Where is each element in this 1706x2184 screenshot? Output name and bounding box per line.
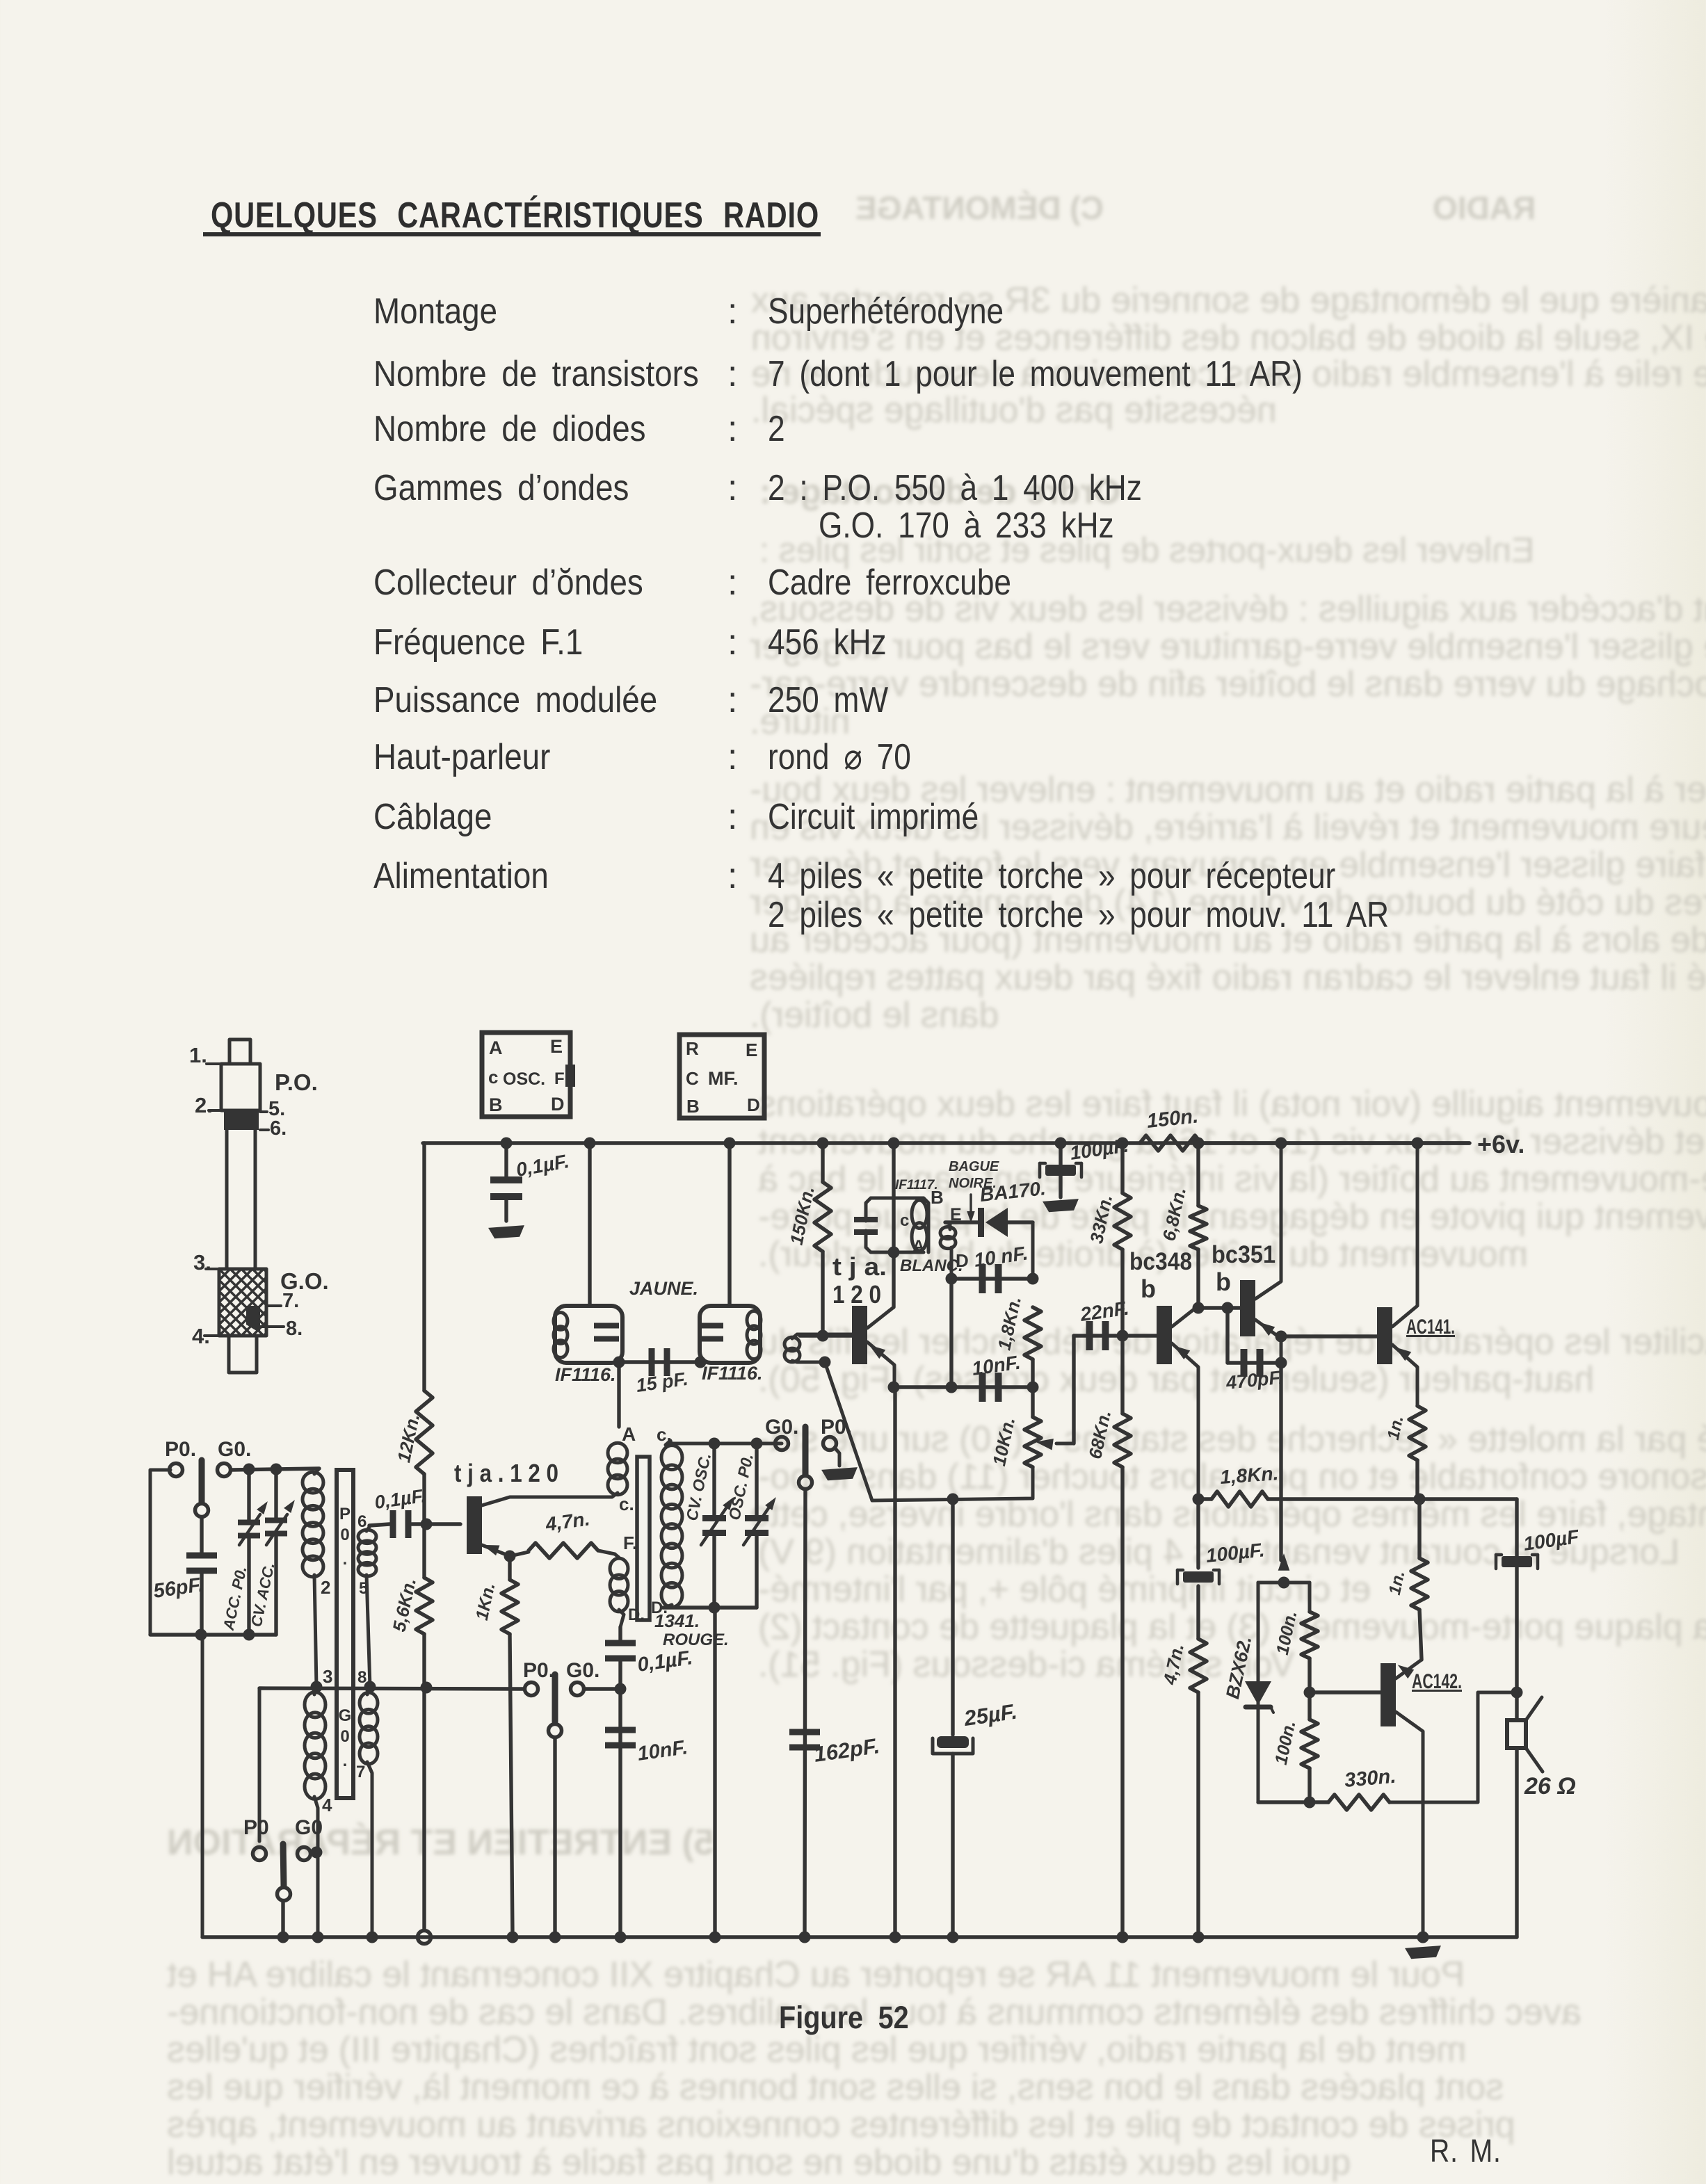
svg-text:100µF.: 100µF.: [1205, 1539, 1265, 1567]
svg-text:68Kn.: 68Kn.: [1084, 1408, 1115, 1461]
resistor 1K: [508, 1556, 511, 1580]
wire 330 ohm to speaker node: [1390, 1692, 1515, 1802]
svg-text:B: B: [931, 1187, 944, 1208]
svg-text:1,8Kn.: 1,8Kn.: [1219, 1462, 1279, 1488]
wire: [1031, 1222, 1035, 1279]
svg-text:c: c: [900, 1211, 909, 1230]
svg-text:D: D: [551, 1094, 565, 1115]
svg-text:150Kn.: 150Kn.: [786, 1184, 819, 1247]
speaker: [1515, 1499, 1518, 1692]
capacitor 10nF second: [894, 1385, 1033, 1389]
antenna coil GO primary: [305, 1692, 325, 1717]
wire: [422, 1474, 426, 1578]
svg-text:A: A: [622, 1423, 636, 1445]
svg-text:5,6Kn.: 5,6Kn.: [388, 1576, 420, 1634]
svg-text:P0.: P0.: [821, 1416, 852, 1439]
transistor AC141: [1377, 1307, 1392, 1364]
svg-text:33Kn.: 33Kn.: [1086, 1192, 1116, 1245]
svg-text:330n.: 330n.: [1344, 1765, 1397, 1792]
oscillator collector winding A-c: [617, 1362, 620, 1427]
svg-text:1n.: 1n.: [1385, 1569, 1409, 1597]
svg-text:AC142.: AC142.: [1412, 1670, 1462, 1693]
svg-text:BAGUE: BAGUE: [949, 1159, 999, 1174]
OSC module box: [482, 1033, 570, 1117]
core bar 1341: [637, 1457, 650, 1620]
svg-text:OSC. P0.: OSC. P0.: [725, 1452, 757, 1521]
svg-text:MF.: MF.: [708, 1068, 739, 1089]
collector wire: [482, 1497, 609, 1505]
svg-text:+6v.: +6v.: [1477, 1130, 1524, 1158]
svg-text:.: .: [343, 1550, 348, 1569]
wire to AC142 emitter: [1419, 1610, 1422, 1660]
svg-text:3.: 3.: [193, 1250, 211, 1275]
ferrite rod antenna detail: [230, 1040, 250, 1064]
svg-text:IF1116.: IF1116.: [555, 1364, 616, 1385]
svg-text:162pF.: 162pF.: [812, 1733, 881, 1767]
trimmer CV OSC: [712, 1443, 716, 1519]
lever: [552, 1674, 558, 1722]
resistor 100 ohm lower: [1307, 1692, 1311, 1720]
trimmer CV ACC: [274, 1469, 277, 1519]
svg-text:1.: 1.: [189, 1043, 207, 1067]
svg-text:4,7n.: 4,7n.: [1159, 1642, 1188, 1687]
capacitor 10nF AGC: [605, 1727, 636, 1733]
svg-text:P0: P0: [243, 1816, 269, 1839]
diode BA170 detector: [945, 1220, 978, 1224]
AGC diagonal wire: [825, 1362, 872, 1501]
switch PO1 contact wire: [258, 1688, 261, 1841]
svg-text:100µF: 100µF: [1522, 1526, 1581, 1555]
resistor 1 ohm driver: [1417, 1499, 1421, 1558]
ground: [1043, 1199, 1079, 1213]
resistor 33K: [1120, 1143, 1124, 1193]
svg-text:100n.: 100n.: [1273, 1609, 1301, 1656]
capacitor 10nF first: [950, 1247, 953, 1279]
IF1117 coupling coil: [866, 1198, 894, 1221]
resistor 4,7 ohm: [1190, 1639, 1207, 1692]
svg-text:t j a.: t j a.: [832, 1252, 887, 1281]
svg-text:b: b: [1141, 1275, 1156, 1303]
resistor 150 ohm supply: [1140, 1135, 1201, 1151]
svg-text:P: P: [339, 1505, 351, 1523]
svg-text:OSC.: OSC.: [503, 1069, 545, 1089]
svg-text:10nF.: 10nF.: [636, 1736, 689, 1765]
svg-text:c.: c.: [619, 1494, 634, 1514]
svg-text:B: B: [489, 1094, 503, 1115]
bias box bottom wire: [1258, 1800, 1310, 1804]
wire to IF2 can: [727, 1143, 731, 1306]
svg-text:bc348: bc348: [1129, 1248, 1192, 1275]
resistor 1,8K AGC: [1024, 1307, 1041, 1359]
svg-text:8.: 8.: [286, 1318, 303, 1340]
svg-text:0,1µF.: 0,1µF.: [636, 1647, 694, 1676]
switch lever antenna: [199, 1460, 205, 1502]
svg-text:7: 7: [356, 1763, 365, 1781]
lever: [283, 1844, 284, 1886]
electrolytic 25uF: [937, 1736, 969, 1748]
loop bottom wire: [150, 1633, 276, 1636]
resistor 1 ohm AC141 emitter: [1409, 1406, 1426, 1460]
collector wire: [867, 1307, 894, 1328]
MF module box: [679, 1035, 764, 1118]
electrolytic 100uF IF decoupling: [1059, 1143, 1062, 1165]
svg-text:10Kn.: 10Kn.: [988, 1415, 1019, 1468]
svg-text:G: G: [339, 1706, 352, 1725]
left antenna loop: [150, 1470, 201, 1635]
transistor bc351: [1240, 1280, 1255, 1336]
svg-text:CV. OSC.: CV. OSC.: [682, 1451, 714, 1522]
svg-text:b: b: [1216, 1268, 1231, 1296]
pin8 wire: [259, 1688, 523, 1689]
svg-text:4: 4: [322, 1795, 332, 1815]
svg-text:26 Ω: 26 Ω: [1524, 1773, 1576, 1799]
svg-text:1341.: 1341.: [654, 1610, 700, 1631]
svg-text:G0.: G0.: [218, 1438, 251, 1461]
svg-text:6.: 6.: [270, 1117, 287, 1140]
svg-text:JAUNE.: JAUNE.: [629, 1278, 698, 1299]
svg-text:6,8Kn.: 6,8Kn.: [1158, 1186, 1190, 1243]
trimmer ACC PO: [247, 1469, 250, 1522]
transistor bc348: [1157, 1306, 1172, 1364]
wire emitter rail down: [893, 1387, 896, 1937]
zener BZX62: [1245, 1681, 1271, 1705]
resistor 330 ohm: [1310, 1800, 1328, 1804]
resistor 12K: [416, 1391, 433, 1474]
svg-text:100n.: 100n.: [1271, 1719, 1300, 1766]
svg-text:1n.: 1n.: [1384, 1414, 1408, 1442]
trimmer OSC PO: [755, 1443, 758, 1519]
oscillator coil secondary GO: [360, 1692, 378, 1713]
base wire: [800, 1334, 852, 1337]
svg-text:470pF.: 470pF.: [1224, 1367, 1284, 1394]
emitter wire: [1396, 1660, 1422, 1679]
capacitor 470pF: [1225, 1308, 1229, 1363]
svg-text:E: E: [746, 1040, 757, 1060]
svg-text:P0.: P0.: [523, 1659, 554, 1682]
wire bus to IF1117: [892, 1143, 895, 1307]
svg-text:AC141.: AC141.: [1406, 1316, 1455, 1338]
svg-text:15 pF.: 15 pF.: [635, 1368, 689, 1396]
wire to IF1 can: [588, 1143, 591, 1306]
collector wire: [1172, 1306, 1198, 1327]
transistor tja120 converter: [467, 1496, 482, 1554]
svg-text:.: .: [343, 1752, 348, 1770]
svg-text:D: D: [956, 1250, 969, 1271]
svg-text:F.: F.: [623, 1532, 637, 1553]
bottom bus: [202, 1935, 1517, 1939]
emitter wire: [482, 1545, 510, 1556]
ground main: [1417, 1932, 1429, 1943]
capacitor 162pF padding: [789, 1729, 820, 1736]
resistor 100 ohm upper: [1301, 1612, 1318, 1658]
capacitor 56pF: [200, 1517, 203, 1555]
svg-text:10nF.: 10nF.: [971, 1351, 1022, 1379]
svg-text:1,8Kn.: 1,8Kn.: [993, 1295, 1025, 1352]
wire: [422, 1634, 426, 1930]
tuning loop left edge: [201, 1635, 204, 1937]
svg-text:1 2 0: 1 2 0: [832, 1280, 881, 1309]
svg-text:56pF.: 56pF.: [152, 1574, 205, 1603]
core bar PO GO: [337, 1470, 353, 1798]
svg-text:ACC. P0.: ACC. P0.: [220, 1564, 250, 1632]
resistor 6,8K: [1196, 1143, 1200, 1206]
resistor 1,8K feedback: [1198, 1497, 1212, 1501]
ground: [488, 1225, 525, 1239]
svg-text:7.: 7.: [282, 1290, 299, 1312]
svg-text:2.: 2.: [195, 1093, 213, 1117]
antenna coil PO primary: [314, 1469, 319, 1474]
emitter wire: [1392, 1345, 1417, 1406]
wire to volume wiper: [1072, 1336, 1075, 1443]
svg-text:0,1µF.: 0,1µF.: [373, 1485, 428, 1513]
svg-text:CV. ACC.: CV. ACC.: [248, 1561, 278, 1628]
IF transformer IF1116 second: [700, 1306, 760, 1363]
svg-text:2: 2: [321, 1577, 330, 1598]
electrolytic 100uF bc348 emitter: [1196, 1499, 1200, 1568]
wire: [1201, 1141, 1470, 1144]
svg-text:t j a . 1 2 0: t j a . 1 2 0: [454, 1459, 558, 1487]
svg-text:IF1116.: IF1116.: [702, 1363, 763, 1384]
svg-text:3: 3: [323, 1666, 332, 1687]
wire left vertical: [422, 1143, 426, 1391]
wire bc351 emitter to bias network: [1279, 1363, 1282, 1560]
detector coupling coil: [784, 1337, 800, 1351]
zener diode BZX62 bias box: [1258, 1581, 1310, 1585]
wire osc tank to bus: [713, 1608, 716, 1937]
emitter wire with arrow: [867, 1342, 894, 1387]
svg-text:ROUGE.: ROUGE.: [663, 1631, 729, 1649]
resistor 4,7 ohm emitter: [510, 1552, 529, 1556]
svg-text:A: A: [912, 1237, 924, 1256]
collector wire: [1392, 1143, 1417, 1327]
svg-text:150n.: 150n.: [1145, 1105, 1199, 1133]
detector transformer winding E-D: [945, 1222, 950, 1229]
capacitor 0,1uF decoupling: [504, 1143, 508, 1180]
collector wire: [1396, 1712, 1423, 1937]
wire 150K to base: [821, 1252, 824, 1336]
svg-text:0: 0: [340, 1526, 349, 1544]
wire 25uF branch: [951, 1499, 954, 1735]
+6v supply bus: [423, 1141, 1470, 1144]
svg-text:10 nF.: 10 nF.: [973, 1242, 1029, 1271]
capacitor 0,1uF oscillator coupling: [369, 1524, 389, 1526]
emitter wire: [1255, 1320, 1281, 1363]
capacitor 22nF coupling: [1074, 1334, 1122, 1337]
electrolytic 100uF output: [1502, 1556, 1532, 1567]
potentiometer 10K volume: [1024, 1417, 1041, 1467]
svg-text:G0.: G0.: [566, 1659, 599, 1682]
switch lever oscillator: [803, 1427, 809, 1474]
svg-text:4,7n.: 4,7n.: [544, 1507, 591, 1535]
svg-text:P0.: P0.: [165, 1438, 196, 1461]
collector wire: [1255, 1143, 1281, 1299]
svg-text:P.O.: P.O.: [275, 1069, 318, 1095]
svg-text:0: 0: [340, 1727, 349, 1746]
capacitor 15pF: [618, 1360, 700, 1364]
emitter wire: [1172, 1343, 1198, 1499]
svg-text:E: E: [550, 1036, 563, 1057]
svg-text:G0: G0: [295, 1816, 323, 1839]
svg-text:F: F: [554, 1069, 565, 1088]
svg-text:1Kn.: 1Kn.: [472, 1581, 499, 1622]
svg-text:D: D: [747, 1094, 760, 1115]
svg-text:25µF.: 25µF.: [962, 1699, 1019, 1731]
resistor 150K: [821, 1143, 824, 1182]
svg-text:B: B: [686, 1096, 700, 1117]
resistor 68K: [1114, 1414, 1131, 1467]
svg-text:BLANC.: BLANC.: [900, 1256, 963, 1275]
svg-text:c: c: [488, 1067, 498, 1087]
IF transformer IF1116 first: [555, 1306, 622, 1363]
resistor 5,6K: [416, 1578, 433, 1634]
wire D to lower rail: [949, 1279, 953, 1387]
svg-text:A: A: [489, 1037, 503, 1058]
svg-text:bc351: bc351: [1212, 1241, 1276, 1268]
svg-text:C: C: [686, 1068, 699, 1089]
capacitor 0,1uF AGC line: [618, 1627, 622, 1642]
svg-text:0,1µF.: 0,1µF.: [515, 1150, 571, 1181]
svg-text:R: R: [686, 1038, 699, 1059]
transistor AC142: [1381, 1663, 1396, 1726]
